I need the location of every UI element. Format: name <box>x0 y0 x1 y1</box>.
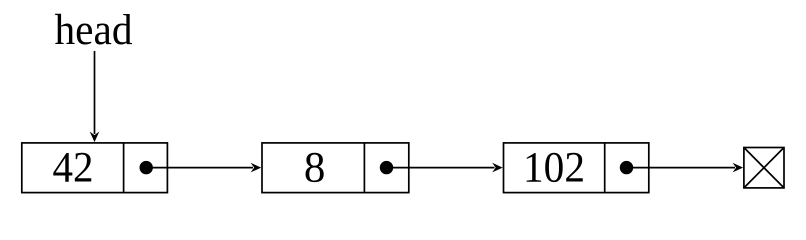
head pointer arrow <box>90 51 100 142</box>
svg-text:42: 42 <box>53 145 94 192</box>
svg-text:8: 8 <box>304 145 326 192</box>
wire node2 to node3 <box>387 163 503 173</box>
node 1 pointer dot <box>140 161 153 174</box>
node 2 divider <box>363 143 365 193</box>
wire node3 to null box <box>627 163 744 173</box>
null terminator box <box>744 148 784 188</box>
svg-text:head: head <box>55 7 133 54</box>
wire node1 to node2 <box>146 163 261 173</box>
node 2 pointer dot <box>380 161 393 174</box>
node 1 divider <box>123 143 125 193</box>
node 3 box <box>504 143 649 193</box>
svg-text:102: 102 <box>523 145 585 192</box>
node 3 pointer dot <box>620 161 633 174</box>
node 3 divider <box>604 143 606 193</box>
node 1 box <box>22 143 168 193</box>
null cross diagonal 2 <box>744 148 784 188</box>
null cross diagonal 1 <box>744 148 784 188</box>
node 2 box <box>262 143 409 193</box>
